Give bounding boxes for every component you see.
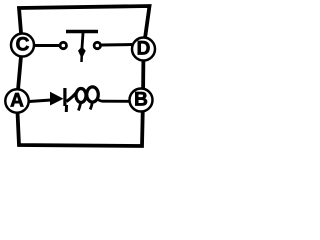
svg-text:A: A (10, 91, 24, 112)
svg-text:D: D (137, 39, 151, 60)
svg-text:B: B (134, 90, 148, 111)
svg-text:C: C (16, 35, 30, 56)
